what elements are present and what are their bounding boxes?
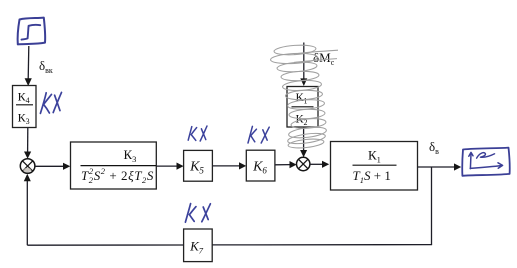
block K7	[184, 229, 213, 262]
summing junction 1	[20, 159, 35, 174]
block G1 K3/(T2^2 S^2+2xiT2S)	[71, 142, 157, 189]
arrowhead into summer2	[290, 161, 297, 168]
annotation KX 4 above K7	[185, 204, 210, 223]
disturbance wire top	[303, 43, 305, 80]
feedback wire rise to summer1	[26, 181, 28, 245]
wire K1/K2 to summer2	[303, 128, 305, 151]
scope sketch box (hand-drawn blue)	[462, 148, 509, 176]
arrowhead into scope	[454, 163, 461, 170]
feedback tap wire down	[431, 167, 433, 245]
wire G2 to scope	[418, 166, 455, 168]
wire G1 to K5	[157, 165, 178, 167]
feedback wire right-to-K7	[212, 244, 432, 246]
arrowhead into K4/K3	[25, 78, 32, 86]
arrowhead into summer1 top	[24, 152, 31, 159]
block K6	[246, 150, 275, 181]
arrowhead into summer1 bottom	[24, 174, 31, 181]
block K1/K2	[287, 87, 318, 128]
step input source box (hand-drawn blue)	[18, 18, 46, 45]
wire K6 to summer2	[275, 164, 290, 166]
wire K5 to K6	[213, 165, 240, 167]
arrowhead into G1	[63, 163, 70, 170]
wire K4/K3 to summer1	[27, 128, 29, 153]
scribble coil over disturbance (grey pencil)	[270, 44, 338, 149]
wire summer1 to G1	[35, 165, 64, 167]
wire source to K4/K3	[27, 46, 30, 79]
arrowhead into K5	[177, 163, 184, 170]
annotation KX 3 above K6	[248, 126, 269, 143]
feedback wire K7-to-left	[27, 244, 183, 246]
annotation KX 2 above K5	[188, 126, 207, 141]
summing junction 2	[297, 157, 310, 170]
block G2 K1/(T1S+1)	[331, 142, 418, 191]
arrowhead into G2	[322, 161, 329, 168]
arrowhead into K6	[239, 162, 246, 169]
arrowhead into K1/K2	[300, 78, 307, 86]
wire summer2 to G2	[310, 163, 323, 165]
svg-text:T1S + 1: T1S + 1	[353, 168, 391, 185]
annotation KX 1 (blue handwriting)	[40, 92, 61, 113]
block K5	[184, 150, 213, 181]
block K4/K3	[13, 86, 37, 128]
arrowhead into summer2 top	[300, 150, 307, 157]
